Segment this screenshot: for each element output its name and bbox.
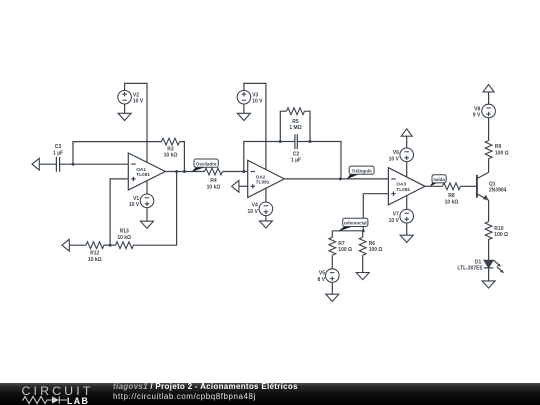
resistor R7 100 Ohm <box>329 237 352 255</box>
wire OA1 V- pin to V1 <box>146 181 148 194</box>
svg-text:V6: V6 <box>393 150 399 156</box>
svg-text:R13: R13 <box>120 229 129 235</box>
svg-text:10 kΩ: 10 kΩ <box>207 184 221 190</box>
resistor R13 10 kOhm <box>116 229 134 249</box>
ground under V2 <box>118 113 131 120</box>
op-amp OA2 TL081 <box>248 160 285 197</box>
svg-text:R6: R6 <box>369 241 376 247</box>
ground under V3 <box>237 113 250 120</box>
ground left of R12 <box>62 239 69 251</box>
wire R5 bridge left <box>280 111 286 141</box>
wire R8 to Q1 base <box>461 185 477 187</box>
svg-text:100 Ω: 100 Ω <box>495 150 509 156</box>
svg-text:R8: R8 <box>448 193 455 199</box>
node junction <box>72 163 75 166</box>
svg-text:V5: V5 <box>319 271 325 277</box>
ground under V7 <box>400 235 413 242</box>
voltage source V4 10 V <box>259 202 273 216</box>
svg-text:10 V: 10 V <box>129 202 140 208</box>
wire C2 right to OA2 output <box>297 142 341 179</box>
svg-text:OA2: OA2 <box>256 174 266 180</box>
wire ground to OA2 + input <box>239 185 248 187</box>
svg-text:10 kΩ: 10 kΩ <box>164 153 178 159</box>
wire V7 to ground <box>406 223 408 235</box>
footer bar <box>0 383 540 405</box>
wire R6 to ground <box>362 255 364 272</box>
supply arrow above V8 <box>483 85 494 92</box>
svg-text:10 V: 10 V <box>248 209 259 215</box>
wire R5 bridge right <box>305 111 311 141</box>
wire V5 to ground <box>331 282 333 294</box>
ground under R6 <box>356 273 369 280</box>
svg-text:100 Ω: 100 Ω <box>494 232 508 238</box>
svg-text:Q1: Q1 <box>489 182 496 188</box>
svg-text:R9: R9 <box>495 144 502 150</box>
resistor R12 10 kOhm <box>86 242 104 263</box>
wire arrow to V8 <box>488 92 490 104</box>
wire OA3 output to R8 <box>425 185 443 187</box>
svg-text:referencial: referencial <box>344 221 367 226</box>
node junction <box>309 140 312 143</box>
svg-text:10 V: 10 V <box>389 218 400 224</box>
node junction <box>362 229 365 232</box>
svg-text:TL081: TL081 <box>396 187 410 193</box>
wire ground to C3 <box>39 163 57 165</box>
node tag Oscilador <box>191 159 218 172</box>
svg-text:R10: R10 <box>494 226 503 232</box>
LED D1 LTL-307EE <box>457 260 504 274</box>
resistor R3 10 kOhm <box>162 138 180 158</box>
svg-text:V8: V8 <box>474 106 480 112</box>
wire R9 to Q1 collector <box>488 159 490 173</box>
voltage source V8 9 V <box>482 104 496 118</box>
voltage source V2 10 V <box>118 90 132 104</box>
svg-text:TL081: TL081 <box>256 179 270 185</box>
svg-text:1 µF: 1 µF <box>291 158 301 164</box>
svg-text:R7: R7 <box>338 241 345 247</box>
resistor R5 1 MOhm <box>287 108 305 131</box>
resistor R4 10 kOhm <box>205 168 223 190</box>
resistor R9 100 Ohm <box>485 141 508 159</box>
wire to R7 <box>331 231 333 238</box>
node junction <box>183 170 186 173</box>
supply arrow above V6 <box>401 129 412 136</box>
svg-text:C3: C3 <box>55 144 62 150</box>
svg-text:LTL-307EE: LTL-307EE <box>457 266 483 272</box>
node junction <box>109 244 112 247</box>
wire junction up to R3 left <box>73 142 162 165</box>
capacitor C3 1 uF <box>53 144 63 172</box>
voltage source V5 8 V <box>326 269 340 283</box>
svg-text:V4: V4 <box>252 203 258 209</box>
ground under V4 <box>259 221 272 228</box>
voltage source V1 10 V <box>140 194 154 208</box>
svg-text:10 V: 10 V <box>133 99 144 105</box>
svg-text:10 kΩ: 10 kΩ <box>117 235 131 241</box>
svg-text:1 MΩ: 1 MΩ <box>289 125 301 131</box>
svg-text:V7: V7 <box>393 212 399 218</box>
svg-text:100 Ω: 100 Ω <box>338 247 352 253</box>
svg-text:OA3: OA3 <box>396 182 406 188</box>
svg-text:10 kΩ: 10 kΩ <box>88 257 102 263</box>
wire output down to R13 <box>133 172 177 246</box>
svg-text:10 kΩ: 10 kΩ <box>445 199 459 205</box>
wire feedback left side <box>244 142 295 172</box>
op-amp OA1 TL081 <box>128 153 165 190</box>
svg-text:100 Ω: 100 Ω <box>369 247 383 253</box>
wire OA3 + input down <box>363 194 388 231</box>
wire V3 to ground <box>243 104 245 113</box>
wire reference node <box>332 230 363 232</box>
wire R7 to V5 <box>331 255 333 268</box>
wire V2 to OA1 V+ pin <box>125 83 147 162</box>
node junction <box>242 170 245 173</box>
svg-text:saída: saída <box>433 177 445 182</box>
svg-text:D1: D1 <box>475 260 482 266</box>
svg-text:Oscilador: Oscilador <box>196 161 217 166</box>
node junction <box>339 177 342 180</box>
voltage source V3 10 V <box>237 90 251 104</box>
ground at input (left of C3) <box>32 158 39 170</box>
svg-text:Triângulo: Triângulo <box>352 168 373 173</box>
wire OA2 output to OA3 <box>284 178 388 180</box>
svg-text:10 V: 10 V <box>389 157 400 163</box>
ground under V5 <box>326 294 339 301</box>
wire to R6 <box>362 231 364 238</box>
wire V3 to OA2 V+ pin <box>244 83 266 169</box>
svg-text:OA1: OA1 <box>136 167 146 173</box>
wire R4 to OA2 inverting input <box>223 171 248 173</box>
svg-text:2N3904: 2N3904 <box>489 188 507 194</box>
svg-text:R3: R3 <box>167 146 174 152</box>
wire R10 to D1 <box>488 240 490 261</box>
svg-text:8 V: 8 V <box>317 277 325 283</box>
wire V1 to ground <box>146 208 148 222</box>
ground under D1 <box>482 281 495 288</box>
node tag saida <box>430 175 447 187</box>
node junction <box>175 170 178 173</box>
footer title text <box>113 382 298 402</box>
resistor R8 10 kOhm <box>443 183 461 205</box>
node junction <box>279 140 282 143</box>
wire V6 to OA3 V+ pin <box>406 162 408 177</box>
wire ground to R12 <box>69 244 86 246</box>
svg-text:9 V: 9 V <box>473 113 481 119</box>
wire OA1 output <box>165 171 204 173</box>
wire between R12 and R13 <box>104 244 116 246</box>
op-amp OA3 TL081 <box>388 168 425 205</box>
CircuitLab logo zigzag and diode <box>22 395 68 405</box>
wire OA2 V- pin to V4 <box>265 188 267 202</box>
ground under V1 <box>141 221 154 228</box>
voltage source V7 10 V <box>400 209 414 223</box>
ground at OA2 + input <box>232 180 239 192</box>
wire arrow to V6 <box>406 136 408 148</box>
svg-text:10 V: 10 V <box>252 99 263 105</box>
resistor R10 100 Ohm <box>485 222 508 240</box>
wire V2 to ground <box>124 104 126 113</box>
wire V8 to R9 <box>488 118 490 141</box>
voltage source V6 10 V <box>400 148 414 162</box>
svg-text:1 µF: 1 µF <box>53 150 63 156</box>
transistor Q1 2N3904 <box>477 172 507 200</box>
wire D1 to ground <box>488 268 490 281</box>
wire OA3 V- pin to V7 <box>406 196 408 210</box>
wire Q1 emitter to R10 <box>488 200 490 221</box>
capacitor C2 1 uF <box>291 134 301 163</box>
svg-text:TL081: TL081 <box>136 172 150 178</box>
svg-text:R5: R5 <box>292 119 299 125</box>
wire R3 right down to output <box>180 142 185 172</box>
svg-text:R12: R12 <box>90 251 99 257</box>
CircuitLab logo text <box>22 385 94 397</box>
wire V4 to ground <box>265 216 267 221</box>
node tag Triangulo <box>347 166 375 179</box>
svg-text:R4: R4 <box>210 178 217 184</box>
wire C3 to OA1 inverting input <box>60 163 129 165</box>
resistor R6 100 Ohm <box>359 237 382 255</box>
svg-text:C2: C2 <box>293 151 300 157</box>
node tag referencial <box>338 218 368 231</box>
wire OA1 + input <box>110 179 128 245</box>
